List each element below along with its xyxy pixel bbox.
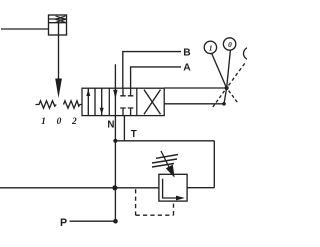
spring right — [64, 101, 83, 108]
center pass line (runs from above valve down to P line) — [114, 64, 116, 221]
wire: stem from pilot box down — [58, 23, 60, 79]
relief valve spring — [152, 155, 178, 168]
svg-text:N: N — [107, 119, 114, 130]
svg-text:0: 0 — [57, 117, 62, 127]
actuation arrow — [55, 79, 62, 99]
gauge G1 — [204, 41, 216, 53]
middle cell blocked stubs — [120, 88, 126, 96]
dashed selector ray down-right — [229, 91, 238, 103]
svg-text:0: 0 — [228, 40, 232, 49]
dashed selector ray up-right — [229, 63, 246, 86]
gauge G1 stem — [212, 54, 227, 88]
relief valve internal flow path — [163, 179, 177, 198]
gauge G3 partial at edge — [244, 47, 257, 60]
node J1 — [225, 86, 229, 90]
wire: left lead to pilot box — [1, 28, 49, 30]
wire to B — [123, 52, 181, 89]
gauge G2 stem — [227, 50, 231, 88]
spring left — [36, 101, 57, 108]
svg-text:1: 1 — [209, 44, 213, 53]
left cell up arrow — [86, 89, 90, 96]
wire to A — [131, 67, 181, 88]
svg-text:A: A — [183, 62, 191, 73]
wire: valve right to node J2 — [164, 103, 224, 105]
directional valve body — [82, 88, 164, 115]
svg-text:T: T — [131, 129, 137, 140]
svg-text:2: 2 — [71, 117, 77, 127]
dashed selector ray down-left — [213, 91, 225, 108]
dashed pilot line — [136, 189, 174, 215]
wire: valve top right to gauge junction — [164, 87, 226, 89]
wire: P stub — [70, 220, 116, 222]
pilot control box — [49, 15, 67, 35]
wire: P rail — [0, 187, 159, 189]
svg-text:1: 1 — [41, 117, 46, 127]
right cell crossed lines — [144, 90, 161, 115]
wire: right drop to relief outlet — [187, 141, 214, 188]
wire: valve T port down — [123, 116, 125, 141]
relief valve box — [159, 174, 187, 201]
node J2 — [222, 102, 226, 106]
gauge G2 — [223, 38, 235, 50]
node P-rail junction — [112, 185, 117, 190]
relief valve adjust arrow — [161, 151, 169, 167]
wire: T return line — [115, 140, 214, 142]
node P end — [113, 219, 118, 224]
svg-text:B: B — [183, 48, 190, 59]
wire: J2 to J1 — [224, 88, 227, 104]
left cell down arrow — [100, 108, 104, 115]
node T-junction — [113, 139, 117, 143]
left cell flow lines — [88, 88, 101, 115]
svg-text:P: P — [60, 217, 67, 229]
pass line down arrow — [113, 90, 117, 99]
